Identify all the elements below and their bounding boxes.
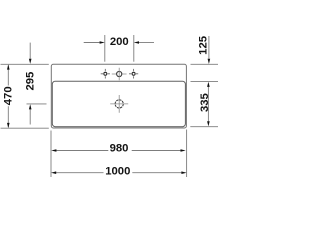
- tap hole center circle: [117, 71, 122, 76]
- extension line drain-left (y=103.9): [27, 103, 47, 105]
- basin inner bowl outline: [52, 81, 185, 126]
- extension line right back (y=64.3): [191, 63, 219, 65]
- svg-text:470: 470: [3, 86, 15, 105]
- dimension 470 arrow down: [7, 123, 10, 128]
- dimension 980 arrow left: [51, 149, 56, 152]
- dimension 200 arrow right: [134, 41, 139, 44]
- dimension 1000 arrow left: [51, 171, 56, 174]
- svg-text:980: 980: [110, 142, 129, 154]
- basin outer outline: [51, 64, 186, 128]
- dimension 200 line left tail: [84, 42, 100, 44]
- dimension 335 arrow up: [207, 82, 210, 87]
- drain circle: [115, 100, 123, 108]
- svg-text:335: 335: [199, 93, 211, 112]
- dimension 295 lower tail with up arrow: [29, 109, 31, 124]
- dimension 980 line: [56, 150, 181, 152]
- extension line bottom-left (front edge, y=128.2): [1, 127, 49, 129]
- drain crosshair: [110, 95, 128, 113]
- dimension 1000 line: [56, 172, 182, 174]
- dimension 200 arrow left: [100, 41, 105, 44]
- dimension 335 line: [207, 87, 209, 122]
- dimension 470 line: [7, 65, 9, 127]
- tap hole right mark: [129, 69, 138, 79]
- dimension 980 arrow right: [181, 149, 186, 152]
- extension line right bowl-top (y=81.4): [191, 80, 219, 82]
- svg-text:125: 125: [198, 36, 210, 55]
- dimension 295 upper tail with down arrow: [29, 43, 31, 59]
- extension line top-left (back edge, y=64.3): [1, 63, 49, 65]
- basin front edge emphasis: [55, 126, 184, 128]
- extension line tap-left tick: [104, 35, 106, 62]
- extension line bottom-right vertical: [186, 130, 188, 178]
- extension line right bowl-bottom (y=126.7): [190, 126, 218, 128]
- dimension 200 line right tail: [139, 42, 154, 44]
- tap hole left mark: [101, 69, 110, 79]
- extension line tap-right tick: [133, 35, 135, 62]
- dimension 470 arrow up: [7, 64, 10, 69]
- dimension 1000 arrow right: [181, 171, 186, 174]
- svg-text:295: 295: [25, 72, 37, 91]
- extension line bottom-left vertical: [50, 131, 52, 178]
- dimension 125 line with down arrow: [208, 36, 210, 59]
- tap hole center crosshair: [112, 68, 127, 81]
- dimension 335 arrow down: [207, 121, 210, 126]
- svg-text:200: 200: [110, 36, 129, 48]
- svg-text:1000: 1000: [105, 166, 130, 178]
